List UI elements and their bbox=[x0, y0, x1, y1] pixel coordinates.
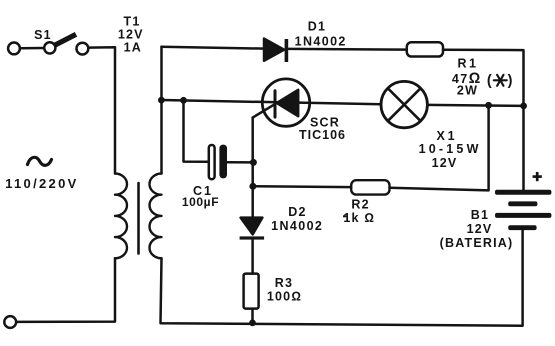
svg-text:12V: 12V bbox=[118, 28, 144, 42]
wire bbox=[251, 240, 254, 274]
svg-text:1k Ω: 1k Ω bbox=[343, 211, 375, 225]
svg-text:110/220V: 110/220V bbox=[5, 176, 78, 191]
svg-text:1N4002: 1N4002 bbox=[295, 35, 347, 49]
node secondary/mid-bus bbox=[158, 97, 165, 104]
wire bbox=[161, 230, 523, 326]
AC input terminal bottom bbox=[4, 316, 16, 328]
SCR TIC106 bbox=[253, 79, 310, 126]
resistor R3 bbox=[244, 274, 259, 309]
svg-text:R3: R3 bbox=[275, 276, 293, 290]
svg-text:): ) bbox=[508, 73, 513, 89]
wire bbox=[443, 50, 524, 190]
battery plus sign bbox=[533, 172, 542, 181]
svg-text:X1: X1 bbox=[436, 129, 457, 143]
svg-text:TIC106: TIC106 bbox=[299, 128, 346, 142]
svg-text:R2: R2 bbox=[351, 198, 369, 212]
wire bbox=[427, 105, 523, 106]
svg-text:S1: S1 bbox=[34, 28, 52, 42]
wire gate node vertical bbox=[251, 118, 254, 218]
resistor R2 bbox=[351, 180, 389, 194]
svg-text:12V: 12V bbox=[432, 156, 458, 170]
svg-text:R1: R1 bbox=[458, 57, 479, 71]
AC source tilde bbox=[28, 157, 52, 165]
svg-text:1N4002: 1N4002 bbox=[271, 219, 323, 233]
wire bbox=[227, 161, 253, 164]
svg-text:100Ω: 100Ω bbox=[267, 290, 302, 304]
wire top bus bbox=[162, 47, 265, 49]
wire mid bus bbox=[162, 100, 382, 104]
wire bbox=[288, 48, 407, 51]
svg-text:1A: 1A bbox=[124, 41, 142, 55]
wire bbox=[20, 47, 44, 50]
node right bus bbox=[520, 103, 527, 110]
AC input terminal top bbox=[8, 43, 20, 55]
node gate/C1 bbox=[250, 159, 257, 166]
wire bbox=[390, 105, 489, 190]
switch S1 bbox=[44, 34, 88, 54]
svg-text:D1: D1 bbox=[308, 19, 326, 33]
svg-text:D2: D2 bbox=[288, 205, 306, 219]
wire bbox=[251, 309, 254, 324]
lamp X1 bbox=[381, 81, 427, 127]
stray dash mark bbox=[343, 215, 346, 217]
diode D1 bbox=[264, 39, 288, 62]
capacitor C1 bbox=[209, 145, 227, 180]
node C1 top bbox=[180, 97, 187, 104]
node lamp/R2 bbox=[485, 102, 492, 109]
resistor R1 bbox=[407, 42, 443, 56]
diode D2 bbox=[240, 218, 265, 240]
wire bbox=[160, 47, 163, 174]
battery B1 bbox=[495, 190, 551, 230]
wire R2 branch bbox=[253, 185, 351, 188]
transformer T1 primary winding bbox=[115, 174, 127, 259]
wire bbox=[88, 47, 115, 173]
svg-text:T1: T1 bbox=[124, 15, 141, 29]
transformer T1 secondary winding bbox=[149, 174, 161, 259]
svg-text:(: ( bbox=[487, 73, 492, 89]
svg-text:10-15W: 10-15W bbox=[419, 142, 482, 156]
svg-text:B1: B1 bbox=[471, 208, 489, 222]
node gate/R2 bbox=[249, 183, 256, 190]
svg-text:12V: 12V bbox=[467, 222, 493, 236]
transformer core bbox=[137, 183, 140, 254]
svg-text:2W: 2W bbox=[457, 84, 478, 98]
asterisk footnote marker bbox=[494, 75, 507, 86]
svg-text:100µF: 100µF bbox=[182, 195, 219, 209]
wire bbox=[16, 258, 115, 322]
wire C1 branch bbox=[184, 100, 209, 162]
svg-text:(BATERIA): (BATERIA) bbox=[440, 236, 514, 250]
node R3 bottom bbox=[249, 320, 256, 327]
